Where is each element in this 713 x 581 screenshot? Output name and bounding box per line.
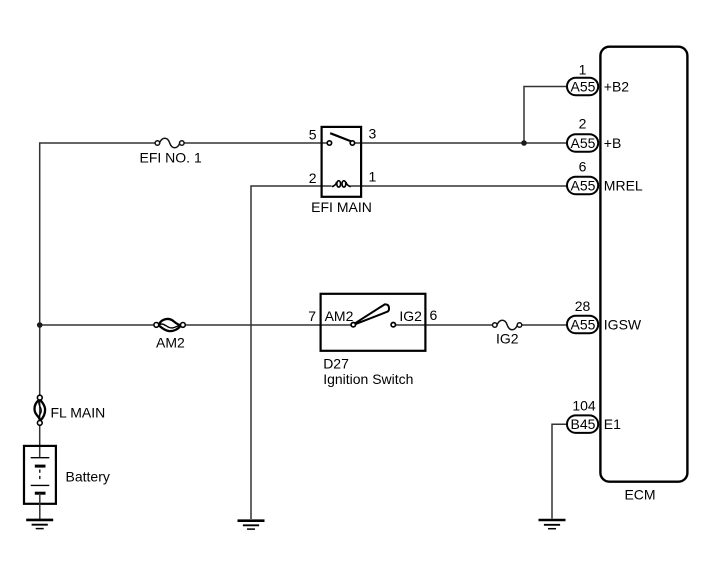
svg-text:7: 7 bbox=[308, 308, 316, 324]
svg-text:+B2: +B2 bbox=[604, 79, 630, 95]
svg-text:MREL: MREL bbox=[604, 178, 643, 194]
ground: below battery bbox=[26, 520, 53, 529]
wire: relay coil pin 1 to ECM MREL connector bbox=[351, 185, 568, 187]
svg-text:A55: A55 bbox=[571, 135, 596, 151]
wire: battery junction to AM2 fusible link bbox=[39, 324, 154, 326]
svg-text:3: 3 bbox=[369, 126, 377, 142]
svg-text:+B: +B bbox=[604, 135, 622, 151]
svg-text:ECM: ECM bbox=[624, 487, 655, 503]
wire: relay contact 3 to ECM +B connector bbox=[354, 142, 567, 144]
connector A55 pin 6 (MREL) bbox=[567, 158, 643, 194]
svg-text:FL MAIN: FL MAIN bbox=[51, 405, 106, 421]
svg-text:AM2: AM2 bbox=[156, 335, 185, 351]
ground: below relay pin 2 wire bbox=[238, 521, 265, 529]
svg-text:IG2: IG2 bbox=[399, 308, 422, 324]
switch D27 Ignition Switch bbox=[308, 294, 437, 387]
connector A55 pin 1 (+B2) bbox=[567, 61, 629, 95]
fusible link AM2 bbox=[154, 319, 185, 351]
wire: top horizontal battery feed to EFI NO.1 fuse bbox=[39, 142, 155, 144]
svg-text:B45: B45 bbox=[571, 416, 596, 432]
svg-text:EFI NO. 1: EFI NO. 1 bbox=[140, 150, 202, 166]
svg-text:EFI MAIN: EFI MAIN bbox=[311, 199, 372, 215]
svg-text:1: 1 bbox=[579, 61, 587, 77]
svg-text:AM2: AM2 bbox=[325, 308, 354, 324]
svg-text:IG2: IG2 bbox=[496, 331, 519, 347]
wire: ignition switch IG2 contact to IG2 fuse bbox=[395, 324, 492, 326]
svg-text:IGSW: IGSW bbox=[604, 317, 642, 333]
svg-text:104: 104 bbox=[572, 398, 596, 414]
connector B45 pin 104 (E1) bbox=[567, 398, 621, 433]
relay EFI MAIN bbox=[309, 126, 377, 216]
svg-text:Ignition Switch: Ignition Switch bbox=[323, 371, 413, 387]
svg-text:D27: D27 bbox=[323, 356, 349, 372]
node: junction on left vertical wire bbox=[37, 322, 43, 328]
wire: branch up to +B2 connector bbox=[524, 87, 568, 144]
svg-text:Battery: Battery bbox=[66, 468, 110, 484]
node: junction of +B/+B2 branch bbox=[521, 140, 527, 146]
wire: AM2 link to ignition switch AM2 contact bbox=[185, 324, 351, 326]
svg-text:6: 6 bbox=[430, 307, 438, 323]
svg-text:2: 2 bbox=[309, 170, 317, 186]
svg-text:2: 2 bbox=[579, 116, 587, 132]
wire: EFI NO.1 fuse to relay contact 5 bbox=[184, 142, 327, 144]
svg-text:6: 6 bbox=[579, 158, 587, 174]
svg-text:28: 28 bbox=[575, 298, 591, 314]
fuse EFI NO. 1 bbox=[140, 138, 202, 165]
ground: below ECM E1 wire bbox=[539, 520, 566, 529]
svg-text:1: 1 bbox=[369, 169, 377, 185]
wire: IG2 fuse to ECM IGSW connector bbox=[522, 324, 568, 326]
ECM box bbox=[600, 47, 687, 503]
battery bbox=[24, 446, 110, 519]
svg-text:5: 5 bbox=[309, 126, 317, 142]
svg-text:A55: A55 bbox=[571, 178, 596, 194]
fuse IG2 bbox=[493, 320, 522, 346]
connector A55 pin 2 (+B) bbox=[567, 116, 621, 152]
svg-text:A55: A55 bbox=[571, 317, 596, 333]
svg-text:E1: E1 bbox=[604, 416, 621, 432]
svg-text:A55: A55 bbox=[571, 79, 596, 95]
wire: ECM E1 connector to ground bbox=[552, 424, 568, 518]
fusible link FL MAIN bbox=[35, 395, 106, 425]
wire: relay pin 2 to left then down to ground bbox=[251, 186, 332, 519]
connector A55 pin 28 (IGSW) bbox=[567, 298, 642, 333]
wire: left vertical from top corner down to battery bbox=[39, 143, 41, 458]
